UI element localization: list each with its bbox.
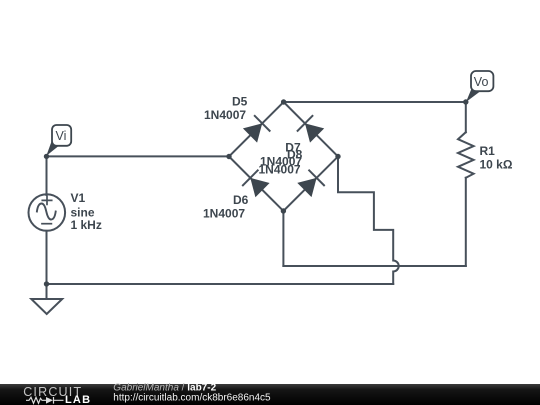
svg-text:D5: D5 xyxy=(232,95,248,109)
svg-text:http://circuitlab.com/ck8br6e8: http://circuitlab.com/ck8br6e86n4c5 xyxy=(113,393,271,404)
svg-text:V1: V1 xyxy=(71,191,86,205)
svg-text:R1: R1 xyxy=(480,144,496,158)
svg-text:1 kHz: 1 kHz xyxy=(71,218,102,232)
svg-text:1N4007: 1N4007 xyxy=(259,163,301,177)
svg-text:LAB: LAB xyxy=(65,394,91,405)
svg-text:1N4007: 1N4007 xyxy=(204,108,246,122)
svg-text:10 kΩ: 10 kΩ xyxy=(480,158,513,172)
svg-text:Vo: Vo xyxy=(474,75,489,89)
svg-text:1N4007: 1N4007 xyxy=(203,207,245,221)
svg-text:D6: D6 xyxy=(233,193,249,207)
svg-text:Vi: Vi xyxy=(56,129,67,143)
